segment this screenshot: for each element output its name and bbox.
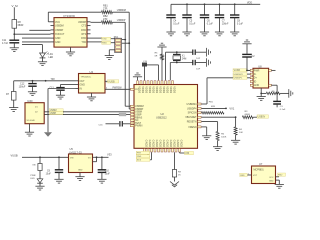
resistor RB1 27R bbox=[102, 11, 113, 14]
ground bbox=[105, 55, 114, 57]
capacitor C3 0.1uF shield bbox=[276, 93, 278, 101]
U7 VCC wire bbox=[276, 176, 280, 178]
net label DN5 bbox=[136, 155, 150, 158]
U8 pin D- bbox=[250, 73, 253, 75]
svg-text:10uF: 10uF bbox=[46, 173, 52, 175]
svg-text:RXD: RXD bbox=[102, 43, 107, 45]
resistor R5 to ground bbox=[161, 60, 163, 80]
svg-text:GND2: GND2 bbox=[162, 140, 166, 148]
svg-text:TXD: TXD bbox=[102, 39, 107, 41]
svg-text:USBDM4: USBDM4 bbox=[187, 103, 198, 106]
U3D ground wire bbox=[29, 124, 31, 133]
svg-text:VDD3: VDD3 bbox=[158, 86, 162, 93]
U5 pin2 stub bbox=[93, 161, 97, 163]
svg-text:SC-4040: SC-4040 bbox=[27, 120, 36, 122]
U1 right pin RTS bbox=[87, 33, 91, 35]
svg-text:PWRSW: PWRSW bbox=[113, 87, 123, 89]
U2 top pin 3 bbox=[144, 81, 146, 85]
ground bbox=[213, 146, 222, 148]
U5 ground stem bbox=[79, 173, 81, 177]
ground bbox=[257, 96, 266, 98]
svg-text:USBDP: USBDP bbox=[55, 29, 64, 32]
capacitor C12 100uF bbox=[32, 80, 34, 82]
svg-text:GND2: GND2 bbox=[176, 140, 180, 148]
net USBDP bbox=[112, 21, 125, 23]
net label USB5V bbox=[257, 115, 269, 118]
svg-text:0R: 0R bbox=[155, 55, 158, 57]
U2 right pin VBUSDET bbox=[198, 116, 202, 118]
svg-text:USBDM1: USBDM1 bbox=[234, 74, 244, 76]
capacitor C7 100nF bbox=[219, 3, 221, 5]
svg-text:VO: VO bbox=[88, 157, 91, 159]
U4 pin 5 VUSB bbox=[105, 80, 108, 82]
net label VUSB at U8 bbox=[247, 69, 250, 71]
U2 bottom pin 3 bbox=[151, 149, 153, 153]
svg-text:V_M: V_M bbox=[12, 4, 19, 8]
wire to U1 pin 4 bbox=[14, 33, 50, 35]
svg-text:GND2: GND2 bbox=[148, 140, 152, 148]
RU1 ground wire bbox=[109, 49, 114, 51]
svg-text:V33: V33 bbox=[107, 153, 112, 157]
wire VBUS rail to U4 bbox=[14, 80, 76, 82]
capacitor C4 0.1uF bbox=[170, 4, 172, 15]
U4 ground wire bbox=[91, 93, 93, 97]
resistor R6 100K to ground bbox=[202, 121, 218, 123]
svg-text:USBDM: USBDM bbox=[117, 9, 126, 12]
U2 top pin 2 bbox=[140, 81, 142, 85]
capacitor C13 bbox=[61, 84, 76, 86]
svg-text:RTS: RTS bbox=[81, 33, 86, 36]
U2 left pin TEST bbox=[130, 122, 134, 124]
svg-text:VDD3: VDD3 bbox=[141, 86, 145, 93]
svg-text:VDD3: VDD3 bbox=[151, 86, 155, 93]
net label RXD bbox=[91, 41, 102, 43]
U2 right pin USBDM4 bbox=[198, 103, 202, 105]
ground bbox=[231, 139, 240, 141]
resistor RB2 27R bbox=[102, 21, 113, 24]
U8 shield wire bbox=[269, 84, 272, 86]
ground bbox=[10, 47, 19, 49]
wire U1 pin to RB2 bbox=[91, 21, 102, 23]
resistor R10 with power LED bbox=[39, 156, 41, 158]
svg-text:VDD3: VDD3 bbox=[162, 86, 166, 93]
wire USBDM vertical bbox=[128, 12, 130, 109]
U1 right pin TXD bbox=[87, 41, 91, 43]
svg-text:VDD3: VDD3 bbox=[169, 86, 173, 93]
U2 top pin 9 bbox=[165, 81, 167, 85]
svg-text:USBDP: USBDP bbox=[78, 21, 87, 24]
svg-text:VIN: VIN bbox=[70, 157, 74, 159]
capacitor C15 bbox=[144, 66, 146, 80]
svg-text:DN5: DN5 bbox=[137, 156, 142, 158]
svg-text:0.1uF: 0.1uF bbox=[207, 22, 214, 25]
wire USBP to U2 bbox=[63, 114, 134, 116]
resistor R7 pulldown bbox=[13, 81, 15, 92]
svg-text:VDD3: VDD3 bbox=[172, 86, 176, 93]
net label RS2 bbox=[278, 173, 286, 176]
svg-text:LM1117-33: LM1117-33 bbox=[69, 150, 82, 154]
wire VBUSDET bbox=[202, 116, 236, 118]
svg-text:ID: ID bbox=[254, 80, 257, 83]
U2 left pin USBDP bbox=[130, 108, 134, 110]
svg-text:VDD3: VDD3 bbox=[155, 86, 159, 93]
capacitor C2 on VUSB bbox=[246, 70, 248, 72]
svg-text:24M: 24M bbox=[182, 59, 187, 61]
U2 right pin SPICSN bbox=[198, 112, 202, 114]
U2 top pin 7 bbox=[158, 81, 160, 85]
ground bbox=[97, 178, 106, 180]
U2 top pin 1 bbox=[137, 81, 139, 85]
svg-text:VUSB: VUSB bbox=[234, 70, 241, 72]
capacitor C11 4.7uF bbox=[9, 39, 19, 41]
svg-text:MCP9801: MCP9801 bbox=[254, 170, 265, 172]
svg-text:USBDP1: USBDP1 bbox=[234, 78, 244, 80]
wire U1 pin 3 bbox=[29, 29, 50, 31]
svg-text:V33: V33 bbox=[185, 153, 190, 155]
svg-text:TP2: TP2 bbox=[51, 79, 56, 81]
ground bbox=[205, 58, 207, 67]
ground bbox=[35, 185, 44, 187]
svg-text:USBDP: USBDP bbox=[117, 19, 126, 22]
U1 left pin 3 USBDP bbox=[51, 29, 55, 31]
ferrite bead FB1 wire to U8 bbox=[202, 103, 208, 105]
net VX1 wire bbox=[202, 107, 227, 109]
svg-text:D-: D- bbox=[254, 73, 257, 76]
net label PRT bbox=[136, 151, 150, 154]
svg-text:4.7uF: 4.7uF bbox=[2, 42, 9, 45]
capacitor C8 0.1uF bbox=[234, 3, 236, 5]
svg-text:GND2: GND2 bbox=[158, 140, 162, 148]
ground bbox=[166, 31, 175, 33]
wire U1 pin 5 bbox=[22, 37, 51, 39]
ground sideways bbox=[288, 89, 290, 98]
svg-text:PWR: PWR bbox=[254, 69, 260, 72]
U2 bottom pin 5 bbox=[158, 149, 160, 153]
U8 ground stem bbox=[260, 88, 262, 97]
svg-text:VCC: VCC bbox=[55, 21, 60, 24]
U2 bottom pin 6 bbox=[161, 149, 163, 153]
svg-text:CTS: CTS bbox=[81, 25, 86, 28]
svg-text:GND2: GND2 bbox=[179, 140, 183, 148]
svg-text:USB2512: USB2512 bbox=[156, 116, 167, 119]
net label USBP bbox=[49, 112, 63, 115]
ground bbox=[87, 96, 96, 98]
svg-text:VDD3: VDD3 bbox=[137, 86, 141, 93]
U7 ground wire bbox=[276, 179, 280, 181]
U4 pin OUT bbox=[76, 80, 79, 82]
svg-text:27R: 27R bbox=[103, 18, 108, 21]
ground bbox=[66, 51, 75, 53]
svg-text:U2: U2 bbox=[161, 112, 165, 116]
net label USBDM1 bbox=[233, 73, 247, 76]
U2 top pin 4 bbox=[147, 81, 149, 85]
svg-text:0.1uF: 0.1uF bbox=[280, 109, 286, 111]
U1 ground pin wire bbox=[70, 47, 72, 52]
RU1 pin wires to USB lines bbox=[122, 39, 126, 41]
ground bbox=[56, 94, 65, 96]
svg-text:RESETN: RESETN bbox=[187, 121, 197, 124]
net label USBM bbox=[49, 109, 63, 112]
IC U1 FT230XD bbox=[54, 18, 87, 47]
svg-text:USBDM: USBDM bbox=[55, 25, 64, 28]
svg-text:VDD3: VDD3 bbox=[148, 86, 152, 93]
ground bbox=[275, 183, 284, 185]
svg-text:3V3OUT: 3V3OUT bbox=[55, 33, 65, 36]
ground bbox=[54, 178, 63, 180]
svg-text:TXD: TXD bbox=[81, 41, 86, 44]
svg-text:GND: GND bbox=[80, 84, 86, 87]
net label V33 bottom bbox=[179, 151, 181, 154]
U2 bottom pin nets bbox=[144, 151, 146, 154]
svg-text:VCC: VCC bbox=[269, 177, 274, 179]
U2 left pin USBDM bbox=[130, 105, 134, 107]
svg-text:GND2: GND2 bbox=[169, 140, 173, 148]
wire LED feed bbox=[22, 44, 43, 46]
U4 pin IN bbox=[76, 88, 79, 90]
net label SD5 bbox=[136, 158, 150, 161]
svg-text:4: 4 bbox=[106, 88, 107, 90]
ground up bbox=[242, 43, 251, 45]
U2 bottom pin 7 bbox=[165, 149, 167, 153]
capacitor C13 10pF bbox=[192, 50, 194, 55]
svg-text:USBDP4: USBDP4 bbox=[187, 107, 197, 110]
svg-text:FT230XD: FT230XD bbox=[64, 14, 76, 18]
svg-text:U5: U5 bbox=[70, 147, 74, 151]
U2 left pin RBIAS bbox=[130, 116, 134, 118]
U2 bottom pin 9 bbox=[172, 149, 174, 153]
svg-text:GND: GND bbox=[269, 180, 274, 182]
capacitor C14 10pF bbox=[192, 60, 194, 65]
U8 right pin wire bbox=[269, 69, 272, 71]
svg-text:0.1uF: 0.1uF bbox=[173, 22, 180, 25]
svg-text:GND2: GND2 bbox=[165, 140, 169, 148]
svg-text:100K: 100K bbox=[221, 137, 227, 139]
svg-text:10P: 10P bbox=[196, 68, 200, 70]
capacitor C6 0.1uF bbox=[204, 3, 206, 5]
IC U4 TPS2051C bbox=[79, 74, 106, 94]
svg-text:680R: 680R bbox=[245, 114, 251, 116]
U2 bottom pin 2 bbox=[147, 149, 149, 153]
IC U3D ESD protection bbox=[25, 103, 44, 124]
crystal X1 bbox=[176, 52, 178, 54]
wire USBDP vertical bbox=[124, 22, 126, 106]
U2 top pin 6 bbox=[154, 81, 156, 85]
U1 left pin 4 3V3OUT bbox=[51, 33, 55, 35]
ground bbox=[205, 48, 207, 57]
svg-text:C10: C10 bbox=[105, 170, 110, 172]
svg-text:USBP: USBP bbox=[50, 113, 57, 115]
svg-text:XRESN: XRESN bbox=[188, 126, 197, 129]
U1 right pin CTS bbox=[87, 25, 91, 27]
svg-text:GND: GND bbox=[78, 170, 83, 172]
svg-text:GND: GND bbox=[254, 84, 260, 87]
svg-text:SPICSN: SPICSN bbox=[188, 112, 197, 115]
LED LD1 bbox=[40, 53, 46, 57]
IC U5 LM1117-33 bbox=[69, 154, 93, 173]
wire USBM to U2 bbox=[63, 111, 134, 113]
inductor L2 long coil bbox=[202, 112, 225, 114]
svg-text:10P: 10P bbox=[196, 58, 200, 60]
U2 right pin XRESN bbox=[198, 126, 202, 128]
capacitor C10 10uF bbox=[101, 156, 103, 158]
IC U8 USB port bbox=[253, 68, 269, 88]
svg-text:PWR: PWR bbox=[30, 175, 36, 177]
U2 left pin PRTPWR bbox=[130, 88, 134, 90]
svg-text:680R: 680R bbox=[18, 24, 24, 27]
ground bbox=[38, 61, 47, 63]
svg-text:100uF: 100uF bbox=[19, 86, 26, 89]
svg-text:LED: LED bbox=[49, 56, 54, 59]
node VBUS junction bbox=[13, 33, 15, 35]
net USBDM bbox=[112, 11, 129, 13]
ground bbox=[202, 135, 211, 137]
svg-text:VBUSDET: VBUSDET bbox=[185, 116, 197, 119]
svg-text:VDD3: VDD3 bbox=[144, 86, 148, 93]
ground bbox=[200, 31, 209, 33]
wire U1 pin 6 bbox=[22, 41, 51, 43]
IC U2 USB2512 hub controller bbox=[134, 85, 198, 149]
U2 left pin USBP bbox=[130, 114, 134, 116]
svg-text:27R: 27R bbox=[103, 8, 108, 11]
crystal X1 24MHz circuit bbox=[165, 52, 167, 80]
U1 right pin RXD bbox=[87, 29, 91, 31]
svg-text:1: 1 bbox=[248, 173, 249, 175]
svg-text:VX1: VX1 bbox=[229, 107, 234, 111]
test point TP2 bbox=[45, 80, 47, 82]
U2 left pin NC bbox=[130, 119, 134, 121]
wire rail to RB1 bbox=[47, 12, 49, 22]
resistor R9 1K to ground bbox=[174, 152, 176, 169]
svg-text:10uF: 10uF bbox=[105, 173, 111, 175]
resistor R8 600R bbox=[12, 20, 17, 29]
resistor R5S shield bbox=[261, 92, 266, 94]
ground bbox=[157, 46, 166, 48]
svg-text:GND: GND bbox=[55, 41, 61, 44]
U2 left pin USBM bbox=[130, 111, 134, 113]
U3D pin wires to U2 USB lines bbox=[44, 111, 64, 113]
svg-text:10K: 10K bbox=[239, 132, 243, 134]
ground chevron bbox=[170, 182, 179, 186]
U2 bottom pin 8 bbox=[168, 149, 170, 153]
gray test pad bbox=[119, 113, 126, 116]
svg-text:VDD3: VDD3 bbox=[165, 86, 169, 93]
svg-text:USB5V: USB5V bbox=[258, 117, 266, 119]
svg-text:GND: GND bbox=[55, 37, 61, 40]
svg-text:U8: U8 bbox=[258, 64, 262, 68]
U2 left pin PWRN bbox=[130, 125, 134, 127]
svg-text:100nF: 100nF bbox=[222, 22, 229, 25]
net label USBDP1 bbox=[233, 76, 247, 79]
U1 right pin USBDP bbox=[87, 21, 91, 23]
U2 bottom pin 1 bbox=[144, 149, 146, 153]
U2 top pin 11 bbox=[172, 81, 174, 85]
U8 pin PWR bbox=[250, 69, 253, 71]
IC U7 MCP9801 bbox=[252, 166, 276, 184]
svg-text:OUT: OUT bbox=[80, 80, 86, 83]
svg-text:RXD: RXD bbox=[81, 37, 86, 40]
U1 left pin 5 GND bbox=[51, 37, 55, 39]
resistor R3 680R bbox=[242, 116, 253, 119]
svg-text:5: 5 bbox=[106, 81, 107, 83]
ground triangle bbox=[44, 132, 52, 137]
U2 top pin 5 bbox=[151, 81, 153, 85]
U2 top pin 10 bbox=[168, 81, 170, 85]
ground bbox=[182, 31, 191, 33]
U2 right pin USBDP4 bbox=[198, 107, 202, 109]
U2 bottom pin 11 bbox=[179, 149, 181, 153]
VDD decoupling rail bbox=[171, 3, 260, 5]
ground bbox=[230, 31, 239, 33]
resistor R4 10K to ground bbox=[235, 117, 237, 127]
svg-text:RXD: RXD bbox=[81, 29, 86, 32]
U2 reset pin ground bbox=[202, 126, 207, 128]
net label RB1 bbox=[240, 173, 247, 176]
svg-text:VUSB: VUSB bbox=[108, 80, 115, 83]
svg-text:VDD: VDD bbox=[247, 2, 252, 5]
U1 left pin 6 GND bbox=[51, 41, 55, 43]
wire U4 EN down bbox=[48, 88, 76, 90]
svg-text:0.1uF: 0.1uF bbox=[237, 22, 244, 25]
svg-text:U3D: U3D bbox=[27, 99, 32, 103]
U7 input wire bbox=[247, 174, 251, 176]
svg-text:IN: IN bbox=[80, 88, 83, 91]
U4 pin GND bbox=[76, 84, 79, 86]
svg-text:GND2: GND2 bbox=[151, 140, 155, 148]
ground bbox=[75, 176, 84, 178]
circuit schematic 300x194 bbox=[0, 0, 300, 194]
svg-text:PRT: PRT bbox=[137, 153, 142, 155]
U2 right pin RESETN bbox=[198, 121, 202, 123]
capacitor C9 10uF bbox=[58, 156, 60, 158]
svg-text:GND2: GND2 bbox=[172, 140, 176, 148]
U1 left pin 1 VCC bbox=[51, 21, 55, 23]
LED PWR chevron bbox=[37, 179, 43, 183]
svg-text:0.1uF: 0.1uF bbox=[189, 22, 196, 25]
net label TXD bbox=[91, 37, 102, 39]
U5 output wire to V33 bbox=[93, 156, 109, 158]
U8 pin GND bbox=[250, 84, 253, 86]
U2 bottom pin 10 bbox=[175, 149, 177, 153]
svg-text:LED: LED bbox=[30, 178, 35, 180]
U2 top pin 8 bbox=[161, 81, 163, 85]
svg-text:VUSB: VUSB bbox=[11, 153, 18, 157]
ground bbox=[215, 31, 224, 33]
U4 pin 4 PWRSW wire to U2 bbox=[105, 88, 134, 90]
U2 top pin 1 ground bbox=[137, 77, 139, 81]
U8 pin ID bbox=[250, 81, 253, 83]
U1 left pin 2 USBDM bbox=[51, 25, 55, 27]
ground bbox=[28, 91, 37, 93]
svg-text:U7: U7 bbox=[259, 162, 263, 166]
svg-text:GND2: GND2 bbox=[144, 140, 148, 148]
svg-text:U4: U4 bbox=[90, 70, 94, 74]
svg-text:GND2: GND2 bbox=[155, 140, 159, 148]
svg-text:PWRN: PWRN bbox=[135, 125, 143, 128]
U8 pin D+ bbox=[250, 77, 253, 79]
ground bbox=[9, 107, 18, 109]
ground bbox=[25, 131, 34, 133]
U1 right pin RXD bbox=[87, 37, 91, 39]
capacitor C5 0.1uF bbox=[186, 3, 188, 5]
svg-text:TPS2051C: TPS2051C bbox=[81, 77, 92, 79]
U2 bottom pin 4 bbox=[154, 149, 156, 153]
